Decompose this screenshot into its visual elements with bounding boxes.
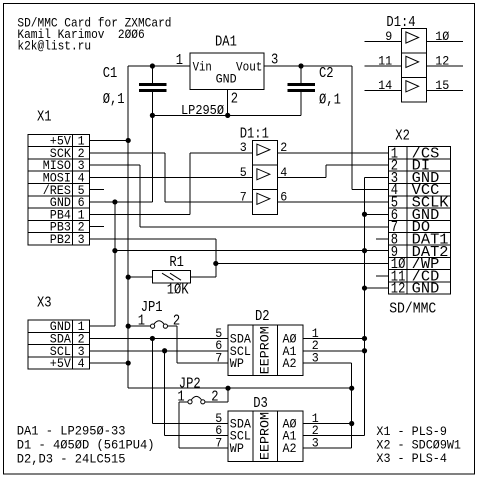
buffer D1:1a triangle — [257, 144, 270, 155]
wire D3 A0 — [303, 423, 352, 425]
junction SCL drop — [162, 348, 167, 353]
wire X1 +5V pin — [90, 139, 129, 141]
svg-text:4: 4 — [78, 356, 85, 371]
wire X1 GND pin — [90, 201, 153, 203]
jumper JP1 pin2 circle — [163, 324, 167, 328]
svg-text:1: 1 — [138, 313, 145, 330]
junction GND bus X2 pin6 — [362, 212, 367, 217]
junction +5V bus JP1 — [126, 324, 131, 329]
svg-text:PB2: PB2 — [50, 232, 71, 247]
svg-text:2: 2 — [231, 91, 238, 108]
wire JP2 pin2 — [205, 401, 228, 403]
voltage regulator DA1 body — [190, 53, 264, 90]
wire X3 SDA to D2 — [90, 337, 229, 339]
wire SCK drop — [164, 153, 166, 202]
wire +5V rail bottom — [128, 387, 352, 389]
buffer D1:1b triangle — [257, 169, 270, 180]
wire SCK to D1:1 pin7 — [165, 201, 252, 203]
svg-text:X2: X2 — [395, 128, 410, 145]
svg-text:1: 1 — [177, 388, 184, 405]
wire DI jog to X2 — [326, 164, 388, 166]
svg-text:D2: D2 — [255, 308, 270, 325]
wire +5V to JP1 pin1 — [128, 325, 150, 327]
resistor R1 body — [153, 270, 191, 283]
wire X1 SCK pin — [90, 152, 165, 154]
junction PB2 /WP R1 — [213, 261, 218, 266]
junction +5V rail JP2 — [225, 386, 230, 391]
wire SCL to D3 — [165, 435, 228, 437]
wire X1 PB2 pin — [90, 238, 216, 240]
wire D3 A2 — [303, 447, 352, 449]
capacitor C1 top lead — [151, 66, 153, 83]
svg-text:12: 12 — [391, 281, 406, 298]
wire X2 GND3 to bus — [365, 176, 389, 178]
wire X1 /RES stub — [90, 189, 104, 191]
connector X2 table — [388, 147, 450, 295]
junction GND bus X1 — [112, 199, 117, 204]
svg-text:X1: X1 — [37, 109, 52, 126]
EEPROM D2 body — [228, 325, 303, 376]
svg-text:3: 3 — [78, 232, 85, 247]
svg-text:7: 7 — [215, 351, 222, 366]
wire JP1 pin2 — [168, 325, 178, 327]
wire JP2 pin1 drop — [178, 402, 180, 448]
svg-text:X1 - PLS-9: X1 - PLS-9 — [376, 424, 447, 439]
junction +5V bus X3 — [126, 360, 131, 365]
wire X3 SCL to D2 — [90, 350, 229, 352]
svg-text:A2: A2 — [283, 441, 297, 456]
jumper JP1 arc — [154, 321, 164, 325]
capacitor C1 bottom lead — [151, 92, 153, 202]
buffer D1:1c triangle — [257, 193, 270, 204]
svg-text:R1: R1 — [169, 254, 184, 271]
D1:4 pin 12 wire — [426, 65, 463, 67]
wire DO to MISO — [140, 226, 388, 228]
svg-text:A2: A2 — [283, 356, 297, 371]
wire JP2 pin2 riser — [227, 388, 229, 402]
junction C1 top — [150, 63, 155, 68]
junction GND bus rail — [112, 248, 117, 253]
svg-text:LP295Ø: LP295Ø — [181, 103, 224, 119]
svg-text:D3: D3 — [253, 395, 268, 412]
wire JP1 pin2 drop — [176, 326, 178, 363]
junction GND bus D2 A1 — [362, 348, 367, 353]
wire D2 A2 — [303, 362, 352, 364]
svg-text:+5V: +5V — [50, 356, 71, 371]
capacitor C2 top lead — [300, 66, 302, 83]
D1:4 pin 10 wire — [426, 41, 463, 43]
D1:4 pin 14 wire — [364, 89, 401, 91]
wire D2 A1 to GND bus — [303, 350, 365, 352]
svg-text:EEPROM: EEPROM — [257, 412, 272, 460]
wire JP1 to D2 WP — [177, 362, 228, 364]
wire D1:1 pin6 to X2 SCLK — [277, 201, 388, 203]
wire X2 DAT1 stub — [376, 238, 388, 240]
svg-text:Vin: Vin — [193, 59, 212, 74]
DA1 pin 2 wire — [227, 90, 229, 116]
wire /WP to X2 — [216, 262, 389, 264]
svg-text:SD/MMC: SD/MMC — [389, 300, 436, 317]
wire SDA drop vertical — [151, 338, 153, 423]
wire X1 PB3 stub — [90, 226, 104, 228]
wire X2 /CD stub — [376, 275, 388, 277]
wire D2 A0 to GND bus — [303, 337, 365, 339]
svg-text:DA1: DA1 — [215, 34, 237, 51]
jumper JP1 pin1 circle — [151, 324, 155, 328]
wire X1 PB4 pin — [90, 213, 191, 215]
wire GND rail to X2 DAT2 — [115, 250, 389, 252]
svg-text:GND: GND — [412, 281, 440, 298]
wire PB4 to D1:1 pin3 — [190, 152, 252, 154]
connector X3 table — [28, 320, 90, 369]
svg-text:X3 - PLS-4: X3 - PLS-4 — [376, 451, 447, 466]
wire D3 A1 to GND bus — [303, 435, 365, 437]
junction C2 top — [298, 63, 303, 68]
buffer D1:4a triangle — [406, 32, 419, 43]
wire GND bus right vertical — [364, 177, 366, 435]
svg-text:1ØK: 1ØK — [167, 282, 189, 299]
svg-text:C1: C1 — [103, 65, 118, 82]
junction +5V rail A2 — [349, 386, 354, 391]
wire MISO drop — [139, 165, 141, 227]
capacitor C2 — [288, 83, 316, 86]
EEPROM D3 body — [228, 411, 303, 462]
svg-text:D2,D3 - 24LC515: D2,D3 - 24LC515 — [17, 451, 126, 466]
capacitor C2 bottom lead — [300, 92, 302, 115]
wire D1:1 pin2 to X2 /CS — [277, 152, 388, 154]
svg-text:C2: C2 — [319, 65, 334, 82]
svg-text:X3: X3 — [37, 295, 52, 312]
svg-text:1: 1 — [176, 52, 183, 69]
svg-text:DA1 - LP295Ø-33: DA1 - LP295Ø-33 — [17, 424, 126, 439]
svg-text:WP: WP — [230, 356, 244, 371]
jumper JP2 pin2 circle — [201, 400, 205, 404]
wire X2 GND6 to bus — [365, 213, 389, 215]
D1:4 pin 11 wire — [364, 65, 401, 67]
jumper JP2 pin1 circle — [188, 400, 192, 404]
junction GND rail DA1 pin2 — [225, 113, 230, 118]
junction GND bus X2 pin12 — [362, 285, 367, 290]
junction SDA drop — [150, 336, 155, 341]
wire VCC drop — [351, 66, 353, 190]
wire X3 GND pin — [90, 325, 115, 327]
wire SDA to D3 — [152, 423, 228, 425]
wire X3 +5V pin — [90, 362, 129, 364]
wire JP2 pin1 — [179, 401, 188, 403]
wire DA1 Vout to VCC drop — [264, 65, 352, 67]
junction A0 drop — [349, 421, 354, 426]
buffer D1:4b triangle — [406, 56, 419, 67]
wire GND bus left vertical — [114, 202, 116, 326]
wire GND mid rail — [152, 114, 301, 116]
jumper JP2 arc — [191, 396, 201, 400]
svg-text:GND: GND — [216, 72, 237, 87]
svg-text:3: 3 — [240, 140, 247, 155]
D1:4 pin 9 wire — [364, 41, 401, 43]
connector X1 table — [28, 134, 90, 245]
wire +5V bus vertical — [127, 66, 129, 388]
svg-text:Vout: Vout — [236, 59, 262, 74]
buffer D1:4c triangle — [406, 81, 419, 92]
svg-text:k2k@list.ru: k2k@list.ru — [17, 39, 91, 54]
wire X2 GND12 to bus — [365, 287, 389, 289]
wire X1 MOSI pin to D1:1 pin5 — [90, 176, 253, 178]
buffer block D1:4 body — [401, 29, 426, 102]
wire +5V to DA1 Vin — [128, 65, 190, 67]
svg-text:2: 2 — [211, 388, 218, 405]
svg-text:2: 2 — [173, 313, 180, 330]
wire R1 right lead — [191, 276, 216, 278]
junction GND rail C1 — [150, 113, 155, 118]
wire PB4 riser — [189, 153, 191, 215]
junction GND bus X2 pin9 — [362, 248, 367, 253]
wire R1 left lead — [128, 276, 152, 278]
svg-text:Ø,1: Ø,1 — [103, 91, 125, 108]
wire SCL drop vertical — [164, 351, 166, 436]
svg-text:EEPROM: EEPROM — [257, 326, 272, 374]
svg-text:Ø,1: Ø,1 — [319, 91, 341, 108]
wire D2 A2 drop — [351, 363, 353, 448]
junction GND bus D2 A0 — [362, 336, 367, 341]
capacitor C1 — [139, 83, 167, 86]
junction +5V bus X1 — [126, 138, 131, 143]
buffer block D1:1 body — [252, 141, 277, 215]
wire PB2 drop — [215, 239, 217, 277]
wire D1:1 pin4 out — [277, 176, 326, 178]
D1:4 pin 15 wire — [426, 89, 463, 91]
svg-text:5: 5 — [240, 165, 247, 180]
wire DI jog vertical — [325, 165, 327, 177]
wire JP2 to D3 WP — [179, 447, 228, 449]
junction +5V bus R1 — [126, 275, 131, 280]
svg-text:WP: WP — [230, 441, 244, 456]
svg-text:D1 - 4Ø5ØD (561PU4): D1 - 4Ø5ØD (561PU4) — [17, 438, 155, 453]
wire VCC to X2 — [352, 189, 388, 191]
wire X1 MISO pin — [90, 164, 141, 166]
